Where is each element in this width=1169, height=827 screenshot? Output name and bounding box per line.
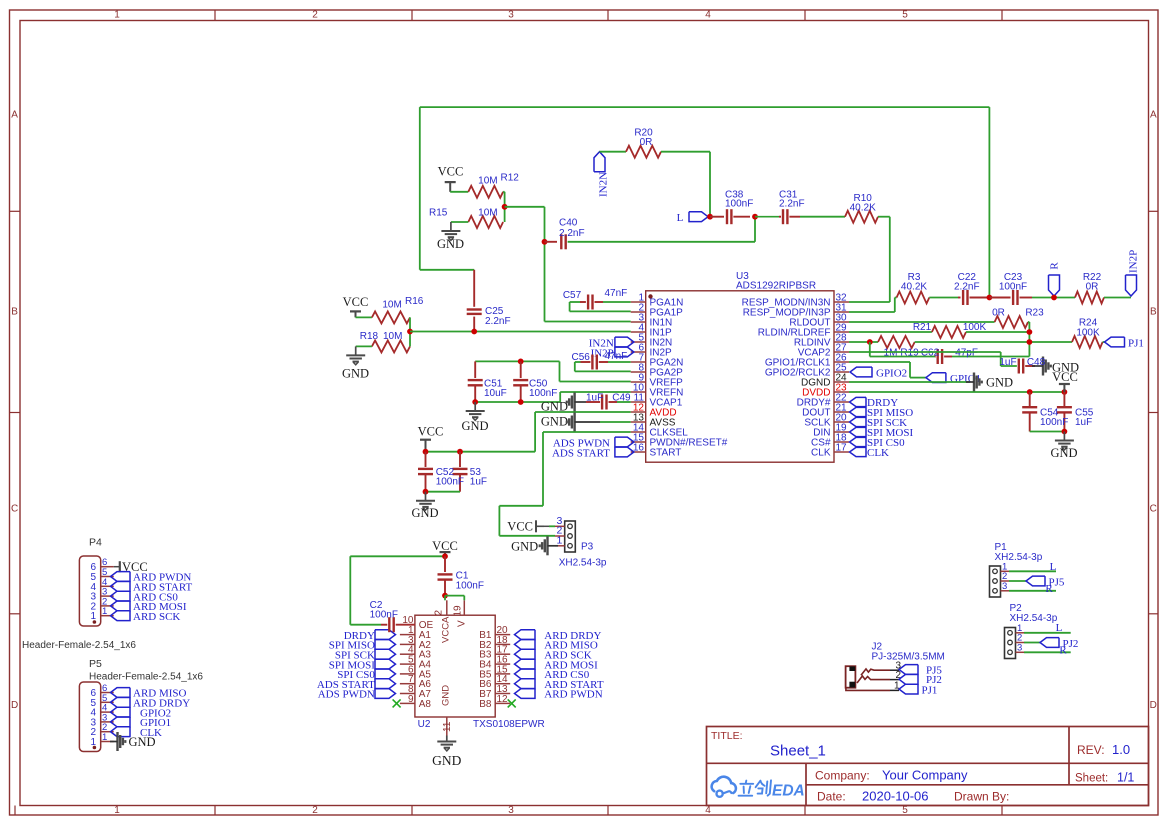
svg-text:0R: 0R <box>640 137 653 148</box>
svg-text:PJ1: PJ1 <box>922 685 938 697</box>
svg-text:D: D <box>1150 700 1157 711</box>
svg-text:VCC: VCC <box>507 520 533 534</box>
svg-text:A: A <box>1150 110 1157 121</box>
svg-text:CLK: CLK <box>811 448 831 459</box>
svg-text:10M: 10M <box>383 331 402 342</box>
svg-text:2.2nF: 2.2nF <box>485 316 511 327</box>
svg-text:GND: GND <box>411 506 438 520</box>
svg-text:VCC: VCC <box>438 165 464 179</box>
svg-text:3: 3 <box>1017 642 1022 653</box>
svg-text:IN2P: IN2P <box>1128 250 1140 273</box>
svg-text:10M: 10M <box>478 208 497 219</box>
svg-text:A: A <box>11 110 18 121</box>
svg-text:IN2N: IN2N <box>598 172 610 197</box>
svg-text:P5: P5 <box>89 658 102 670</box>
svg-text:100nF: 100nF <box>456 581 484 592</box>
svg-text:9: 9 <box>408 694 414 705</box>
svg-text:5: 5 <box>902 10 908 21</box>
svg-text:Company:: Company: <box>815 769 870 783</box>
svg-text:GND: GND <box>129 735 156 749</box>
svg-text:1: 1 <box>114 10 120 21</box>
svg-text:47pF: 47pF <box>955 348 978 359</box>
svg-text:1uF: 1uF <box>586 393 603 404</box>
svg-text:Sheet:: Sheet: <box>1075 773 1108 785</box>
svg-text:2: 2 <box>434 610 445 616</box>
svg-text:1: 1 <box>102 606 107 617</box>
svg-text:12: 12 <box>497 694 509 705</box>
svg-text:100K: 100K <box>1076 328 1100 339</box>
svg-text:3: 3 <box>508 10 514 21</box>
svg-text:1: 1 <box>102 732 107 743</box>
svg-text:P4: P4 <box>89 537 102 549</box>
svg-text:2: 2 <box>312 805 318 816</box>
svg-text:L: L <box>1050 561 1057 573</box>
svg-text:B: B <box>1150 307 1157 318</box>
svg-text:XH2.54-3p: XH2.54-3p <box>995 552 1043 563</box>
svg-text:GND: GND <box>461 419 488 433</box>
svg-text:TXS0108EPWR: TXS0108EPWR <box>473 719 545 730</box>
svg-text:XH2.54-3p: XH2.54-3p <box>559 558 607 569</box>
svg-text:1/1: 1/1 <box>1117 771 1134 785</box>
svg-text:1.0: 1.0 <box>1112 742 1130 757</box>
svg-text:2.2nF: 2.2nF <box>559 228 585 239</box>
svg-text:Header-Female-2.54_1x6: Header-Female-2.54_1x6 <box>22 640 136 651</box>
svg-text:GND: GND <box>437 237 464 251</box>
svg-text:2.2nF: 2.2nF <box>954 282 980 293</box>
svg-text:1: 1 <box>114 805 120 816</box>
svg-text:Sheet_1: Sheet_1 <box>770 743 826 760</box>
svg-text:REV:: REV: <box>1077 743 1105 757</box>
svg-text:100nF: 100nF <box>370 610 398 621</box>
svg-text:100nF: 100nF <box>436 477 464 488</box>
svg-text:3: 3 <box>508 805 514 816</box>
svg-text:B8: B8 <box>479 699 492 710</box>
svg-text:R23: R23 <box>1025 308 1044 319</box>
svg-text:10M: 10M <box>382 300 401 311</box>
svg-text:1uF: 1uF <box>1075 417 1092 428</box>
svg-text:VCC: VCC <box>432 539 458 553</box>
svg-text:ADS START: ADS START <box>552 448 610 460</box>
svg-text:47nF: 47nF <box>605 288 628 299</box>
svg-text:1uF: 1uF <box>470 477 487 488</box>
svg-text:GND: GND <box>432 753 461 768</box>
svg-text:GND: GND <box>511 539 538 553</box>
svg-text:ADS1292RIPBSR: ADS1292RIPBSR <box>736 281 816 292</box>
svg-text:ADS PWDN: ADS PWDN <box>318 689 375 701</box>
svg-text:R: R <box>1049 262 1061 270</box>
svg-text:VCC: VCC <box>343 295 369 309</box>
svg-text:Header-Female-2.54_1x6: Header-Female-2.54_1x6 <box>89 672 203 683</box>
svg-text:11: 11 <box>442 721 453 732</box>
svg-text:D: D <box>11 700 18 711</box>
svg-text:GND: GND <box>441 685 452 706</box>
svg-text:XH2.54-3p: XH2.54-3p <box>1010 613 1058 624</box>
svg-text:47nF: 47nF <box>605 351 628 362</box>
svg-text:TITLE:: TITLE: <box>711 730 743 742</box>
svg-text:1: 1 <box>557 535 563 547</box>
svg-text:C40: C40 <box>559 218 578 229</box>
svg-text:P3: P3 <box>581 542 594 553</box>
svg-text:L: L <box>677 212 684 224</box>
svg-text:R21: R21 <box>913 322 932 333</box>
svg-text:B: B <box>11 307 18 318</box>
svg-text:4: 4 <box>705 10 711 21</box>
svg-text:EDA: EDA <box>772 783 805 800</box>
svg-text:0R: 0R <box>1086 282 1099 293</box>
svg-text:U2: U2 <box>418 719 431 730</box>
svg-text:GPIO2: GPIO2 <box>876 368 907 380</box>
svg-text:R15: R15 <box>429 208 448 219</box>
svg-text:3: 3 <box>1002 581 1007 592</box>
svg-text:17: 17 <box>836 443 848 454</box>
svg-text:100nF: 100nF <box>725 199 753 210</box>
svg-text:R18: R18 <box>360 331 379 342</box>
svg-text:PJ1: PJ1 <box>1128 338 1144 350</box>
svg-text:R: R <box>1059 645 1067 657</box>
svg-text:L: L <box>1056 622 1063 634</box>
svg-text:10M: 10M <box>478 176 497 187</box>
svg-text:1uF: 1uF <box>999 357 1016 368</box>
svg-text:R12: R12 <box>501 173 520 184</box>
svg-text:ARD PWDN: ARD PWDN <box>544 689 602 701</box>
svg-text:C57: C57 <box>563 290 582 301</box>
svg-text:V: V <box>457 620 468 627</box>
svg-text:Drawn By:: Drawn By: <box>954 790 1009 804</box>
svg-text:VCC: VCC <box>418 425 444 439</box>
svg-text:R16: R16 <box>405 296 424 307</box>
svg-text:5: 5 <box>902 805 908 816</box>
svg-text:4: 4 <box>705 805 711 816</box>
svg-text:C62: C62 <box>921 348 940 359</box>
svg-text:GND: GND <box>1050 446 1077 460</box>
svg-text:GND: GND <box>541 415 568 429</box>
svg-text:C: C <box>1150 504 1157 515</box>
svg-text:VCC: VCC <box>1052 370 1078 384</box>
svg-text:C48: C48 <box>1027 357 1046 368</box>
svg-text:40.2K: 40.2K <box>850 203 876 214</box>
svg-text:100nF: 100nF <box>1040 417 1068 428</box>
svg-text:A8: A8 <box>419 699 432 710</box>
svg-text:10uF: 10uF <box>484 388 507 399</box>
svg-text:Your Company: Your Company <box>882 768 968 783</box>
svg-text:GND: GND <box>986 376 1013 390</box>
svg-text:100nF: 100nF <box>529 388 557 399</box>
svg-text:40.2K: 40.2K <box>901 282 927 293</box>
svg-text:START: START <box>650 448 682 459</box>
svg-text:2: 2 <box>312 10 318 21</box>
svg-text:PJ-325M/3.5MM: PJ-325M/3.5MM <box>872 652 945 663</box>
svg-text:19: 19 <box>453 605 464 617</box>
svg-text:2020-10-06: 2020-10-06 <box>862 789 929 804</box>
svg-text:2.2nF: 2.2nF <box>779 199 805 210</box>
svg-text:C56: C56 <box>572 352 591 363</box>
svg-text:CLK: CLK <box>867 447 889 459</box>
svg-text:C: C <box>11 504 18 515</box>
svg-text:VCCA: VCCA <box>441 616 452 643</box>
svg-text:R: R <box>1045 583 1053 595</box>
svg-text:0R: 0R <box>992 308 1005 319</box>
svg-text:Date:: Date: <box>817 790 846 804</box>
svg-text:100nF: 100nF <box>999 282 1027 293</box>
svg-text:GND: GND <box>342 367 369 381</box>
svg-text:C49: C49 <box>612 393 631 404</box>
svg-text:ARD SCK: ARD SCK <box>133 611 180 623</box>
